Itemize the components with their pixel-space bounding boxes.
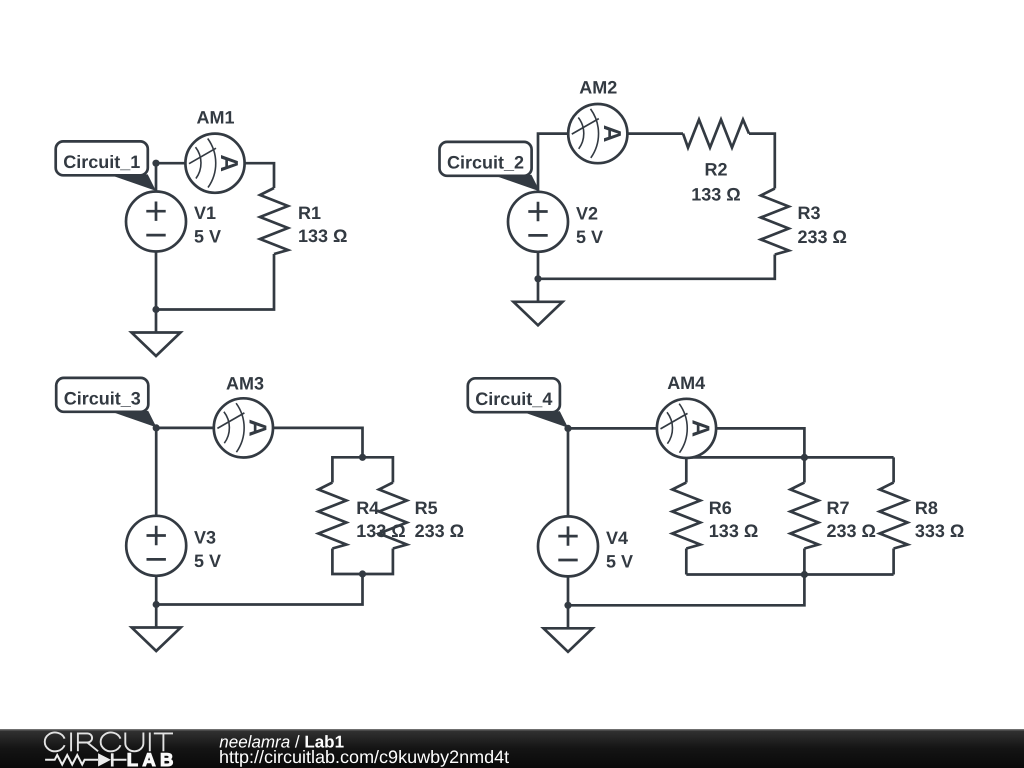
svg-text:R2: R2 (704, 159, 727, 179)
svg-text:LAB: LAB (127, 749, 178, 768)
svg-text:R8: R8 (915, 498, 938, 518)
wire top rail (686, 456, 893, 459)
svg-text:5 V: 5 V (194, 551, 221, 571)
node dot parallel top (359, 454, 366, 461)
resistor R7 (790, 483, 818, 549)
svg-text:Circuit_2: Circuit_2 (447, 153, 524, 173)
wire R1 bottom to ground rail (156, 254, 274, 310)
svg-text:R6: R6 (709, 498, 732, 518)
voltage source V4 (538, 516, 598, 576)
wire V1 bottom (155, 252, 158, 310)
wire rail to ground rail (568, 575, 804, 606)
svg-text:133 Ω: 133 Ω (298, 226, 347, 246)
wire V1 top (155, 163, 158, 192)
resistor R6 (672, 483, 700, 549)
svg-text:V3: V3 (194, 527, 216, 547)
wire node to AM4 (568, 427, 657, 430)
ammeter AM3 (214, 398, 273, 457)
logo CIRCUIT lettering (45, 733, 173, 752)
node dot parallel bottom (359, 570, 366, 577)
wire bottom rail (686, 573, 893, 576)
wire AM2 to R2 (627, 132, 683, 135)
svg-text:133 Ω: 133 Ω (709, 521, 758, 541)
ammeter AM1 (185, 134, 244, 193)
wire V3 top (155, 428, 158, 516)
node dot top (152, 160, 159, 167)
svg-text:V4: V4 (606, 528, 628, 548)
wire AM1 to R1 corner (245, 163, 274, 188)
wire corner V2 to AM2 (538, 134, 568, 192)
node dot rail bottom (801, 571, 808, 578)
svg-text:R4: R4 (356, 498, 379, 518)
flag Circuit_1 (56, 141, 156, 191)
resistor R8 (880, 483, 908, 549)
voltage source V2 (508, 192, 568, 252)
wire AM4 to rail corner (716, 428, 804, 457)
voltage source V1 (126, 192, 186, 252)
node dot ground (564, 602, 571, 609)
voltage source V3 (126, 516, 186, 576)
wire parallel top rail (332, 457, 393, 482)
wire V3 bottom (155, 576, 158, 605)
ground (514, 279, 563, 326)
node dot top (153, 424, 160, 431)
svg-text:233 Ω: 233 Ω (827, 521, 876, 541)
wire node1 to AM1 (156, 162, 186, 165)
svg-text:R1: R1 (298, 203, 321, 223)
wire V4 bottom (567, 576, 570, 605)
ground (132, 310, 181, 357)
svg-text:Circuit_3: Circuit_3 (64, 389, 141, 409)
svg-text:AM2: AM2 (579, 78, 617, 98)
resistor R4 (318, 483, 346, 549)
svg-text:5 V: 5 V (194, 227, 221, 247)
node dot bottom (152, 306, 159, 313)
wire R2 to R3 corner (749, 134, 775, 189)
flag Circuit_4 (468, 378, 568, 428)
wire node to AM3 (156, 427, 214, 430)
svg-text:AM1: AM1 (196, 107, 234, 127)
wire AM3 to parallel top (273, 428, 363, 457)
flag Circuit_2 (440, 142, 540, 192)
wire R7 leads (803, 457, 806, 574)
svg-text:233 Ω: 233 Ω (798, 227, 847, 247)
wire V4 top (567, 428, 570, 516)
svg-text:V1: V1 (194, 203, 216, 223)
node dot rail top (801, 454, 808, 461)
flag Circuit_3 (56, 378, 156, 428)
node dot ground (153, 601, 160, 608)
svg-text:5 V: 5 V (576, 227, 603, 247)
svg-text:133 Ω: 133 Ω (691, 184, 740, 204)
resistor R2 (683, 120, 749, 148)
ground (132, 605, 181, 652)
ammeter AM2 (568, 104, 627, 163)
node dot (534, 275, 541, 282)
wire parallel bottom to ground rail (156, 574, 362, 605)
wire R3 bottom to V2 bottom (538, 255, 775, 279)
node dot top (564, 425, 571, 432)
svg-text:133 Ω: 133 Ω (356, 521, 405, 541)
svg-text:Circuit_1: Circuit_1 (63, 152, 140, 172)
svg-text:AM3: AM3 (226, 373, 264, 393)
svg-text:5 V: 5 V (606, 551, 633, 571)
resistor R3 (761, 189, 789, 255)
svg-text:V2: V2 (576, 203, 598, 223)
svg-text:R3: R3 (798, 203, 821, 223)
svg-text:233 Ω: 233 Ω (415, 521, 464, 541)
wire R6 leads (685, 457, 688, 574)
svg-text:R5: R5 (415, 498, 438, 518)
svg-text:Circuit_4: Circuit_4 (475, 389, 552, 409)
resistor R5 (379, 483, 407, 549)
svg-text:http://circuitlab.com/c9kuwby2: http://circuitlab.com/c9kuwby2nmd4t (219, 747, 509, 767)
ammeter AM4 (657, 399, 716, 458)
resistor R1 (260, 188, 288, 254)
ground (544, 605, 593, 652)
wire V2 bottom (537, 252, 540, 279)
wire parallel bottom rail (332, 549, 393, 575)
logo resistor-diode glyph (45, 755, 126, 765)
wire R8 leads (892, 457, 895, 574)
svg-text:AM4: AM4 (667, 373, 705, 393)
svg-text:R7: R7 (827, 498, 850, 518)
svg-text:333 Ω: 333 Ω (915, 521, 964, 541)
